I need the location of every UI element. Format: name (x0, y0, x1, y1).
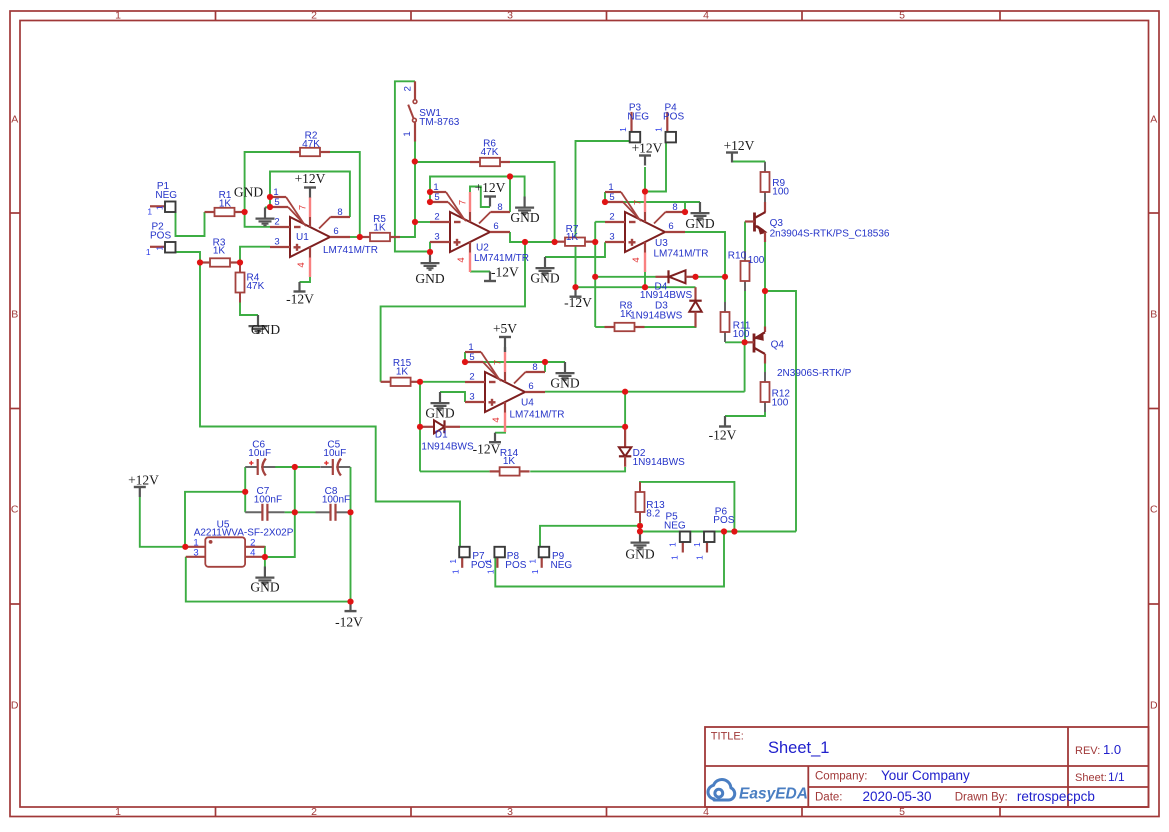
svg-text:+12V: +12V (475, 180, 506, 195)
wire U4 output (545, 391, 745, 393)
svg-text:6: 6 (668, 221, 673, 232)
svg-text:1K: 1K (396, 366, 409, 377)
junction at 640,525.8 (637, 523, 643, 529)
svg-text:NEG: NEG (551, 560, 573, 571)
ground (523, 197, 525, 207)
svg-text:B: B (11, 309, 18, 321)
svg-text:POS: POS (713, 515, 734, 526)
wire R2 left to U1 pin2 (245, 152, 290, 227)
svg-text:GND: GND (415, 271, 444, 286)
svg-text:1K: 1K (373, 222, 386, 233)
svg-text:6: 6 (333, 226, 338, 237)
svg-text:5: 5 (274, 197, 279, 208)
transistor Q4 (753, 334, 756, 353)
svg-text:TITLE:: TITLE: (711, 731, 744, 743)
resistor R4 (239, 263, 241, 273)
svg-text:1: 1 (402, 131, 413, 136)
power flag +12V (134, 486, 146, 488)
junction at 359.8,237 (357, 234, 363, 240)
svg-text:5: 5 (469, 352, 474, 363)
resistor R6 (470, 161, 480, 163)
wire U2 +12V jog (470, 187, 490, 208)
junction at 625.1,426.8 (622, 424, 628, 430)
wire U5 pin1 node up to C6 branch (185, 492, 245, 547)
svg-text:1/1: 1/1 (1108, 770, 1125, 784)
svg-text:1: 1 (485, 569, 495, 574)
wire R12 to -12V (725, 412, 765, 416)
junction at 575.5,287.2 (572, 284, 578, 290)
power flag +12V (726, 151, 738, 153)
svg-text:8: 8 (337, 207, 342, 218)
wire U4 pins loop (465, 352, 565, 362)
ground (564, 362, 566, 372)
power flag +12V (484, 195, 496, 197)
svg-text:8: 8 (532, 362, 537, 373)
power flag -12V (298, 282, 300, 292)
diode D4 (656, 276, 669, 278)
svg-text:47K: 47K (481, 147, 499, 158)
junction at 240,262.5 (237, 259, 243, 265)
junction at 605,202 (602, 199, 608, 205)
wire U2 pins loop (430, 177, 525, 203)
wire P2 to R3 node (175, 252, 200, 263)
ground (264, 567, 266, 577)
svg-text:D: D (1150, 700, 1158, 712)
svg-text:5: 5 (899, 806, 905, 818)
junction at 294.8,512.3 (292, 509, 298, 515)
svg-text:NEG: NEG (155, 190, 177, 201)
svg-text:2n3904S-RTK/PS_C18536: 2n3904S-RTK/PS_C18536 (770, 229, 890, 240)
wire node x415 down to R5 (400, 162, 415, 237)
svg-text:1: 1 (115, 10, 121, 22)
diode D2 (624, 427, 626, 448)
resistor R13 (639, 482, 641, 492)
wire U4 pin8 drop (544, 362, 546, 372)
svg-text:R10: R10 (728, 250, 747, 261)
svg-text:100: 100 (733, 329, 750, 340)
junction at 200,262.5 (197, 259, 203, 265)
connector P3 (630, 112, 632, 132)
wire U4 out up to Q4 base node (744, 342, 746, 391)
junction at 595.2,276.8 (592, 274, 598, 280)
resistor R2 (290, 151, 300, 153)
wire U1 pin5 to ground (265, 206, 270, 209)
svg-text:+12V: +12V (295, 171, 326, 186)
svg-text:POS: POS (663, 111, 684, 122)
svg-text:5: 5 (899, 10, 905, 22)
svg-text:10uF: 10uF (248, 448, 271, 459)
power flag +12V (639, 154, 651, 156)
junction at 645,287.2 (642, 284, 648, 290)
frame column ticks and numbers (215, 11, 217, 21)
wire R13 top to output drop (640, 482, 734, 532)
svg-text:retrospecpcb: retrospecpcb (1017, 789, 1095, 804)
diode D1 (420, 426, 434, 428)
wire P4 to +12V node (645, 142, 666, 191)
wire R10 to Q4 base node (744, 291, 746, 342)
svg-text:8: 8 (497, 202, 502, 213)
wire U4 -12V jog (495, 432, 505, 433)
svg-text:-12V: -12V (335, 615, 363, 630)
junction at 595.2,242 (592, 239, 598, 245)
svg-text:2: 2 (311, 10, 317, 22)
svg-text:8: 8 (672, 202, 677, 213)
wire node to R11 top (724, 277, 726, 302)
ic U5 (185, 546, 205, 548)
wire SW1 bottom to R6/U2 node (414, 142, 416, 163)
resistor R1 (205, 211, 215, 213)
junction at 645,191.5 (642, 188, 648, 194)
wire R14 left (420, 470, 490, 472)
svg-text:8.2: 8.2 (646, 509, 660, 520)
svg-text:D1: D1 (435, 430, 448, 441)
wire +12V to U5 pin1 (140, 497, 186, 547)
resistor R10 (744, 251, 746, 261)
connector P2 (150, 246, 165, 248)
svg-text:4: 4 (296, 262, 307, 267)
svg-text:3: 3 (507, 806, 513, 818)
svg-text:Drawn By:: Drawn By: (955, 791, 1008, 803)
svg-text:7: 7 (298, 205, 309, 210)
svg-text:3: 3 (609, 232, 614, 243)
svg-text:4: 4 (456, 257, 467, 262)
ground (264, 208, 266, 218)
op-amp U1 (290, 217, 330, 257)
svg-text:GND: GND (685, 216, 714, 231)
power flag -12V (494, 433, 496, 443)
svg-text:-12V: -12V (286, 292, 314, 307)
ground (429, 252, 431, 262)
svg-text:1: 1 (618, 127, 628, 132)
junction at 625.1,391.7 (622, 389, 628, 395)
resistor R14 (490, 470, 500, 472)
svg-text:B: B (1150, 309, 1157, 321)
junction at 185.3,546.8 (182, 544, 188, 550)
wire R13 bottom stub (639, 522, 641, 526)
wire -12V rail to D3 (576, 286, 696, 288)
svg-text:1K: 1K (566, 232, 579, 243)
svg-text:100nF: 100nF (254, 494, 282, 505)
capacitor C7 (245, 511, 262, 513)
svg-text:LM741M/TR: LM741M/TR (474, 253, 529, 264)
svg-text:LM741M/TR: LM741M/TR (654, 249, 709, 260)
svg-text:1: 1 (448, 559, 458, 564)
wire Q3-Q4 node to output drop (765, 291, 796, 532)
wire U3 pin2 node to D4 (595, 276, 655, 278)
junction at 554.6,242 (552, 239, 558, 245)
logo EasyEDA (708, 779, 735, 800)
wire D3 bottom to R8 (645, 322, 696, 328)
svg-text:7: 7 (493, 360, 504, 365)
svg-text:1: 1 (694, 555, 704, 560)
svg-text:1N914BWS: 1N914BWS (421, 441, 474, 452)
wire R4 to ground (240, 303, 258, 316)
wire C6 left drop (244, 467, 246, 512)
svg-text:100: 100 (772, 397, 789, 408)
wire R14 right to D2 (530, 467, 625, 471)
svg-text:5: 5 (609, 192, 614, 203)
svg-text:2: 2 (402, 86, 413, 91)
wire D4 anode to R11 node (696, 276, 726, 278)
svg-text:100: 100 (772, 187, 789, 198)
svg-text:1: 1 (147, 207, 152, 217)
wire R7 to U3 pin2 (595, 221, 605, 223)
junction at 350.5,601.6 (347, 599, 353, 605)
svg-text:5: 5 (434, 192, 439, 203)
wire Q3 +12V to R9 (732, 161, 765, 163)
wire U3 pin3 to ground wire (545, 242, 605, 257)
junction at 725,276.8 (722, 274, 728, 280)
wire +12V node to U3 pin7 (644, 167, 646, 192)
junction at 724,531.5 (721, 528, 727, 534)
resistor R15 (381, 381, 391, 383)
svg-text:47K: 47K (302, 139, 320, 150)
wire R13 node to output row (639, 526, 641, 532)
title block (705, 727, 1149, 807)
wire U2 pin8 drop (509, 177, 511, 213)
junction at 685,212 (682, 209, 688, 215)
svg-text:-12V: -12V (709, 428, 737, 443)
ground (257, 315, 259, 325)
junction at 270,197 (267, 194, 273, 200)
ground (544, 257, 546, 267)
svg-text:1: 1 (692, 542, 702, 547)
op-amp U2 (450, 212, 490, 252)
svg-text:GND: GND (251, 322, 280, 337)
svg-text:1: 1 (451, 569, 461, 574)
wire U3 out to R11 (685, 232, 725, 277)
wire U5 pin2 to pin4 node (255, 547, 265, 557)
svg-text:Sheet:: Sheet: (1075, 772, 1107, 784)
svg-text:A: A (11, 114, 18, 126)
svg-text:4: 4 (491, 417, 502, 422)
svg-text:2: 2 (469, 372, 474, 383)
svg-text:-12V: -12V (473, 442, 501, 457)
svg-text:U3: U3 (655, 238, 668, 249)
svg-text:7: 7 (458, 200, 469, 205)
junction at 420,426.8 (417, 424, 423, 430)
power flag -12V (349, 602, 351, 612)
svg-text:EasyEDA: EasyEDA (739, 786, 808, 803)
junction at 350.5,512.3 (347, 509, 353, 515)
svg-text:6: 6 (493, 221, 498, 232)
ground (439, 392, 441, 402)
junction at 294.8,467 (292, 464, 298, 470)
svg-text:2020-05-30: 2020-05-30 (863, 789, 932, 804)
svg-text:100nF: 100nF (322, 494, 350, 505)
wire P9 to R13 node (540, 526, 640, 547)
wire C7 right stub (285, 511, 295, 513)
wire R7 right vertical (594, 222, 596, 327)
wire P8 bottom loop (495, 532, 724, 587)
connector P7 (461, 557, 463, 568)
svg-text:1K: 1K (219, 199, 232, 210)
wire C8 left stub (295, 511, 316, 513)
wire P1 to R1 (176, 212, 205, 237)
svg-text:1.0: 1.0 (1103, 742, 1121, 757)
junction at 430,202 (427, 199, 433, 205)
wire center cap node down to U5 pin4 node (265, 467, 295, 557)
junction at 415,222 (412, 219, 418, 225)
wire U1 -12V jog (300, 277, 311, 283)
power flag +5V (499, 336, 511, 338)
resistor R5 (360, 236, 370, 238)
wire R15-D1 vertical (419, 382, 421, 472)
svg-text:1: 1 (483, 559, 493, 564)
wire U2 out to R15 (381, 242, 525, 382)
junction at 245.2,491.8 (242, 489, 248, 495)
svg-text:Your Company: Your Company (881, 768, 970, 783)
capacitor C6 (245, 466, 258, 468)
svg-text:1: 1 (667, 542, 677, 547)
svg-text:U4: U4 (521, 398, 534, 409)
svg-text:LM741M/TR: LM741M/TR (510, 410, 565, 421)
wire U5 pin3 to -12V rail (186, 557, 351, 602)
wire output row P5 P6 (640, 531, 796, 533)
svg-text:47K: 47K (247, 281, 265, 292)
svg-text:1: 1 (670, 555, 680, 560)
svg-text:Q3: Q3 (770, 218, 784, 229)
wire Q4 emitter to R12 (764, 364, 766, 373)
svg-text:100: 100 (748, 255, 765, 266)
svg-text:-12V: -12V (491, 265, 519, 280)
svg-text:1: 1 (527, 559, 537, 564)
svg-text:+12V: +12V (632, 141, 663, 156)
junction at 244.6,212 (242, 209, 248, 215)
wire R9 gap (764, 161, 766, 164)
svg-text:TM-8763: TM-8763 (419, 117, 459, 128)
svg-text:GND: GND (530, 271, 559, 286)
wire R6 right to U2 output node (510, 162, 555, 242)
connector P6 (706, 542, 708, 553)
resistor R8 (605, 326, 615, 328)
wire R3 node long route to P7 (200, 263, 460, 548)
svg-text:A2211WVA-SF-2X02P: A2211WVA-SF-2X02P (194, 528, 294, 539)
svg-text:POS: POS (505, 560, 526, 571)
wire C5 right down to -12V rail (350, 467, 352, 602)
svg-text:1: 1 (530, 569, 540, 574)
junction at 430,192 (427, 189, 433, 195)
wire U3 pin8 drop (684, 202, 686, 212)
svg-text:GND: GND (425, 406, 454, 421)
svg-text:2: 2 (311, 806, 317, 818)
wire U1 pin3 to R3-R4 node (240, 247, 270, 263)
svg-text:3: 3 (469, 392, 474, 403)
resistor R7 (555, 241, 565, 243)
wire U2 pin3 vertical (429, 242, 431, 252)
connector P4 (666, 112, 668, 132)
power flag -12V (489, 272, 491, 282)
junction at 744.6,342.3 (742, 339, 748, 345)
wire R15 to U4 pin2 (420, 381, 465, 383)
svg-text:4: 4 (250, 547, 255, 558)
svg-text:3: 3 (274, 237, 279, 248)
svg-text:1: 1 (654, 127, 664, 132)
switch SW1 (414, 81, 416, 99)
junction at 640,531.5 (637, 528, 643, 534)
svg-text:2N3906S-RTK/P: 2N3906S-RTK/P (777, 368, 852, 379)
svg-text:3: 3 (434, 232, 439, 243)
svg-text:1K: 1K (213, 246, 226, 257)
capacitor C5 (320, 466, 333, 468)
transistor Q3 (753, 213, 756, 232)
wire D1 to D2 top node (460, 426, 625, 428)
wire U2 -12V jog (470, 271, 490, 273)
svg-text:1: 1 (146, 247, 151, 257)
svg-text:Date:: Date: (815, 791, 843, 803)
svg-text:LM741M/TR: LM741M/TR (323, 245, 378, 256)
svg-text:2: 2 (434, 212, 439, 223)
wire SW1 top to left drop (395, 81, 430, 251)
svg-text:3: 3 (507, 10, 513, 22)
wire to R8 left (595, 326, 604, 328)
svg-text:2: 2 (609, 212, 614, 223)
wire U1 +12V stem gap (309, 196, 311, 199)
svg-text:3: 3 (193, 547, 198, 558)
wire U2 pin2 (415, 221, 430, 223)
junction at 545,362 (542, 359, 548, 365)
svg-text:4: 4 (703, 10, 709, 22)
svg-text:GND: GND (250, 579, 279, 594)
connector P1 (150, 205, 165, 207)
wire Q4 top (764, 291, 766, 327)
svg-text:U1: U1 (296, 232, 309, 243)
ground (699, 202, 701, 212)
junction at 270,207 (267, 204, 273, 210)
wire U4 pin3 jog to ground (440, 392, 465, 402)
resistor R3 (200, 261, 210, 263)
svg-text:10uF: 10uF (323, 448, 346, 459)
wire U1 pin6 to R5 (350, 236, 360, 238)
resistor R11 (724, 302, 726, 312)
svg-text:Q4: Q4 (771, 340, 785, 351)
svg-text:6: 6 (528, 381, 533, 392)
svg-text:1: 1 (115, 806, 121, 818)
junction at 264.9,557 (262, 554, 268, 560)
svg-text:GND: GND (625, 546, 654, 561)
wire U3 pins loop (605, 192, 700, 202)
svg-text:GND: GND (550, 375, 579, 390)
junction at 765,291 (762, 288, 768, 294)
wire U1 pins 1-5-8 loop (270, 172, 350, 218)
svg-text:NEG: NEG (627, 111, 649, 122)
wire C6-C5 mid node (275, 466, 320, 468)
connector P8 (496, 557, 498, 568)
svg-text:Sheet_1: Sheet_1 (768, 739, 829, 757)
svg-text:1N914BWS: 1N914BWS (630, 310, 683, 321)
junction at 420,381.8 (417, 379, 423, 385)
wire R2 right to U1 output (330, 152, 360, 237)
resistor R9 (764, 162, 766, 172)
wire Q3 emitter down (764, 242, 766, 291)
junction at 510,176.5 (507, 173, 513, 179)
op-amp U4 (485, 372, 525, 412)
wire R6 left to node (415, 161, 470, 163)
svg-text:4: 4 (631, 257, 642, 262)
wire Q3 base to R10 (744, 222, 746, 252)
junction at 695.5,276.8 (692, 274, 698, 280)
ground (639, 532, 641, 542)
wire P3 drop to -12V rail (576, 141, 630, 287)
wire U3 pin4 to -12V rail (644, 272, 646, 287)
junction at 465,362 (462, 359, 468, 365)
svg-text:A: A (1150, 114, 1157, 126)
junction at 414.8,161.5 (412, 158, 418, 164)
svg-text:POS: POS (150, 230, 171, 241)
svg-text:D: D (11, 700, 19, 712)
wire R11 to Q4 base (725, 341, 745, 343)
svg-text:-12V: -12V (564, 295, 592, 310)
